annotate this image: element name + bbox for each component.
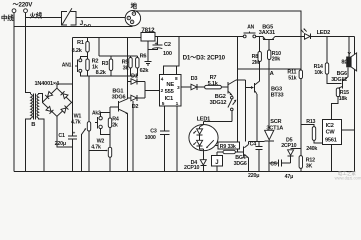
svg-text:火线: 火线 xyxy=(30,11,43,20)
svg-text:～220V: ～220V xyxy=(13,2,34,9)
svg-text:Y: Y xyxy=(347,52,351,58)
socket (3-hole) xyxy=(125,11,140,26)
svg-text:Ak2: Ak2 xyxy=(92,110,101,116)
transistor BG4 xyxy=(244,142,249,172)
wire bridge right vertex stub xyxy=(71,101,74,103)
voltage regulator 7812 xyxy=(141,33,155,41)
svg-text:18k: 18k xyxy=(339,96,347,102)
capacitor C4 xyxy=(255,142,262,172)
svg-text:3AX31: 3AX31 xyxy=(259,30,275,36)
svg-text:R6: R6 xyxy=(140,53,147,59)
wire bridge minus down xyxy=(57,116,73,147)
svg-text:3DG6: 3DG6 xyxy=(234,161,247,167)
svg-text:IC1: IC1 xyxy=(165,96,174,102)
svg-text:AN: AN xyxy=(247,25,254,31)
svg-text:R9 33k: R9 33k xyxy=(220,144,236,150)
wire bridge plus up and right xyxy=(57,84,73,89)
capacitor C2 xyxy=(148,36,162,49)
svg-text:BT33: BT33 xyxy=(271,92,284,98)
svg-text:www.dgzj.com: www.dgzj.com xyxy=(335,176,361,180)
svg-text:5.1k: 5.1k xyxy=(208,81,219,87)
svg-text:7812: 7812 xyxy=(141,27,155,34)
resistor R12 xyxy=(299,156,302,172)
svg-text:3DG6: 3DG6 xyxy=(112,94,126,100)
svg-text:CW: CW xyxy=(326,129,336,135)
terminal live xyxy=(24,9,28,13)
svg-text:SCR: SCR xyxy=(270,119,281,125)
svg-text:8.2k: 8.2k xyxy=(72,48,83,54)
svg-text:20k: 20k xyxy=(272,57,280,63)
resistor R5 xyxy=(129,56,132,76)
resistor R7 xyxy=(205,85,228,89)
svg-text:R7: R7 xyxy=(210,75,217,81)
relay contact JD-D xyxy=(62,8,77,25)
svg-text:D-D: D-D xyxy=(84,23,91,28)
SCR 3CT1A xyxy=(249,130,274,171)
svg-text:C2: C2 xyxy=(164,42,171,48)
wire live top to contact xyxy=(26,17,62,19)
wire top rail right y=36.4 xyxy=(155,35,243,37)
wire pin1 down xyxy=(176,106,178,171)
svg-text:+: + xyxy=(155,41,158,47)
svg-text:中线: 中线 xyxy=(1,13,14,22)
svg-text:W1: W1 xyxy=(74,113,82,119)
svg-text:C5: C5 xyxy=(270,161,277,167)
wire pin3 out xyxy=(181,86,191,88)
svg-text:3K: 3K xyxy=(306,163,313,169)
pushbutton AN xyxy=(243,31,255,37)
svg-text:4.7k: 4.7k xyxy=(91,145,101,151)
wire resistor bottom rail y=76 xyxy=(88,75,138,77)
transistor BG3 (BT33) xyxy=(246,80,260,142)
svg-text:NE: NE xyxy=(166,82,174,88)
wire earth rail xyxy=(134,11,301,36)
svg-text:R4: R4 xyxy=(112,116,119,122)
diode D3 xyxy=(191,84,205,90)
resistor R4 xyxy=(108,107,111,148)
diode D5 xyxy=(288,149,301,163)
diode D4 xyxy=(200,149,206,172)
LED2 xyxy=(301,29,355,40)
svg-text:LED2: LED2 xyxy=(317,30,331,36)
bridge rectifier xyxy=(42,88,71,116)
svg-text:C3: C3 xyxy=(150,128,157,134)
wire IC2 bottom xyxy=(331,145,333,172)
svg-text:3CT1A: 3CT1A xyxy=(266,125,283,131)
pushbutton AN1 xyxy=(75,57,88,77)
svg-text:2CP10: 2CP10 xyxy=(281,143,296,149)
capacitor C3 xyxy=(160,131,170,171)
svg-text:8.2k: 8.2k xyxy=(96,70,107,76)
svg-text:3DG12: 3DG12 xyxy=(210,100,227,106)
svg-text:1N4001×4: 1N4001×4 xyxy=(35,81,60,87)
resistor R11 xyxy=(299,36,302,155)
svg-text:D3: D3 xyxy=(191,76,198,82)
svg-text:8Ω: 8Ω xyxy=(341,60,349,66)
wire bottom rail xyxy=(14,170,355,172)
svg-text:W2: W2 xyxy=(97,138,105,144)
resistor R10 xyxy=(268,40,271,131)
resistor R1 xyxy=(86,37,89,59)
svg-text:10k: 10k xyxy=(314,70,322,76)
svg-text:D1～D3: 2CP10: D1～D3: 2CP10 xyxy=(183,55,226,62)
svg-text:4.7k: 4.7k xyxy=(71,120,81,126)
resistor R9 with label box xyxy=(216,142,244,154)
svg-text:AN1: AN1 xyxy=(62,63,72,69)
wire DC plus vertical x=72.5 xyxy=(72,37,74,135)
resistor R15 xyxy=(332,88,340,120)
svg-text:IC2: IC2 xyxy=(326,123,334,129)
svg-text:2M: 2M xyxy=(252,60,260,66)
speaker Y xyxy=(347,36,357,71)
transistor BG2 xyxy=(228,80,246,95)
resistor R8 xyxy=(258,36,261,81)
svg-text:2k: 2k xyxy=(112,123,118,129)
wire live vertical xyxy=(26,13,31,93)
svg-text:地: 地 xyxy=(131,1,138,10)
svg-text:3DG12: 3DG12 xyxy=(331,77,347,83)
terminal neutral xyxy=(12,9,16,13)
capacitor C1 xyxy=(68,136,77,171)
svg-text:100: 100 xyxy=(163,51,172,57)
wire top rail left y=37.4 xyxy=(73,36,141,38)
transistor BG5 (3AX31) xyxy=(263,36,275,43)
resistor R14 xyxy=(325,36,341,83)
relay contact J at BG2 emitter xyxy=(228,95,237,122)
wire 7812 gnd xyxy=(147,41,149,61)
svg-text:1000: 1000 xyxy=(145,135,156,141)
svg-text:555: 555 xyxy=(165,89,175,95)
wire contact to socket xyxy=(76,17,127,19)
svg-text:R13: R13 xyxy=(306,119,315,125)
capacitor C5 xyxy=(269,160,290,167)
svg-text:R1: R1 xyxy=(77,40,84,46)
resistor R13 xyxy=(301,125,323,144)
wire input vertical x=127.5 xyxy=(127,37,129,99)
op-amp timer NE555 IC1 xyxy=(159,75,181,107)
transistor BG6 xyxy=(338,67,348,89)
svg-text:220μ: 220μ xyxy=(248,173,259,179)
wire IC2 right to border xyxy=(342,129,355,131)
svg-text:B: B xyxy=(31,122,35,128)
wire sub-rail x=99.2 xyxy=(98,37,100,56)
potentiometer W2 xyxy=(89,147,112,171)
svg-text:R3: R3 xyxy=(102,61,109,67)
potentiometer W1 xyxy=(82,76,91,171)
IC2 CW9561 xyxy=(323,120,342,145)
wire x=133.2 down xyxy=(132,101,134,171)
resistor R6 xyxy=(136,56,139,76)
wire neutral vertical xyxy=(13,13,15,172)
pushbutton AN2 xyxy=(95,113,110,135)
wire resistor top rail y=56.2 xyxy=(99,55,137,57)
wire long vertical x=237.5 xyxy=(237,36,239,152)
svg-text:D2: D2 xyxy=(132,104,139,110)
svg-text:51k: 51k xyxy=(288,75,296,81)
wire 555 supply bracket xyxy=(164,36,180,74)
wire neutral rail to socket xyxy=(14,24,132,27)
ground xyxy=(145,61,152,65)
relay coil J xyxy=(212,152,223,171)
transistor BG1 xyxy=(110,99,128,172)
wire LED1 top line xyxy=(204,121,232,123)
wire D1 D2 cathodes to pin2 xyxy=(144,82,146,99)
wire right border xyxy=(354,36,356,171)
svg-text:240k: 240k xyxy=(306,146,317,152)
optocoupler LED1 xyxy=(189,122,218,151)
svg-text:C4: C4 xyxy=(250,142,257,148)
wire node A line y=69 xyxy=(238,68,301,70)
wire pin5 down xyxy=(163,106,165,131)
svg-text:62k: 62k xyxy=(140,68,150,74)
transformer B xyxy=(26,93,44,172)
svg-text:D1: D1 xyxy=(131,73,138,79)
svg-text:J: J xyxy=(215,160,218,166)
svg-text:2CP10: 2CP10 xyxy=(184,165,199,171)
diode D2 xyxy=(128,95,146,101)
resistor R3 xyxy=(109,56,112,76)
svg-text:9561: 9561 xyxy=(325,137,337,143)
diode D1 xyxy=(128,79,146,85)
resistor R2 xyxy=(86,59,89,76)
svg-text:47μ: 47μ xyxy=(285,174,294,180)
svg-text:C1: C1 xyxy=(58,133,65,139)
svg-text:220μ: 220μ xyxy=(55,141,66,147)
